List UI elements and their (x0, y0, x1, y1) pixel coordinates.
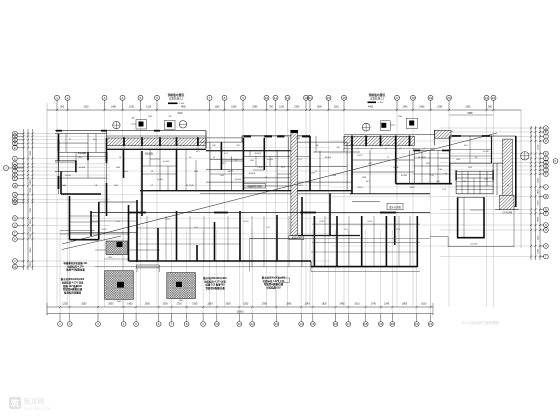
svg-text:14: 14 (308, 96, 312, 100)
left wing extra room lines (59, 156, 107, 158)
svg-text:详见结施-12: 详见结施-12 (169, 97, 184, 101)
svg-text:1480: 1480 (339, 304, 345, 306)
svg-text:1340: 1340 (402, 107, 408, 109)
room block 316-360 upper (313, 151, 360, 153)
svg-text:F: F (14, 157, 16, 161)
svg-text:4: 4 (122, 96, 124, 100)
svg-text:3150: 3150 (83, 107, 89, 109)
svg-text:预制板布置区: 预制板布置区 (168, 93, 185, 97)
svg-text:1180: 1180 (215, 107, 221, 109)
top-right block (450, 136, 492, 163)
svg-text:1570: 1570 (228, 171, 234, 173)
lift shaft hatched strip (291, 133, 298, 236)
svg-text:1580: 1580 (231, 107, 237, 109)
wall x137 (136, 200, 138, 262)
box between pads (136, 265, 159, 268)
svg-text:18: 18 (411, 96, 415, 100)
core north wall stubs (243, 135, 251, 137)
svg-text:KL10: KL10 (297, 185, 303, 187)
svg-text:17: 17 (347, 322, 351, 326)
left wing rooms upper (55, 160, 76, 162)
lower band north boundary (91, 212, 430, 214)
svg-text:3190: 3190 (465, 107, 471, 109)
svg-text:KL5(2): KL5(2) (145, 153, 153, 156)
right wing small rooms cluster (456, 170, 493, 172)
svg-text:2850: 2850 (537, 189, 539, 195)
svg-text:8800: 8800 (30, 247, 32, 253)
svg-text:22: 22 (429, 322, 433, 326)
svg-text:W: W (14, 265, 17, 269)
svg-text:h=110: h=110 (267, 159, 274, 161)
hatch band 1 cross wall marks (123, 137, 125, 146)
svg-text:3: 3 (104, 96, 106, 100)
svg-text:12: 12 (286, 96, 290, 100)
svg-text:12: 12 (251, 322, 255, 326)
svg-text:13: 13 (275, 322, 279, 326)
svg-text:15: 15 (327, 96, 331, 100)
thick south edge centre block (298, 235, 360, 237)
svg-text:T: T (545, 255, 547, 259)
svg-text:15: 15 (311, 322, 315, 326)
horizontal axis grid lines right (330, 128, 544, 257)
right hatched wall strip (503, 139, 513, 207)
svg-text:4490: 4490 (368, 107, 374, 109)
svg-text:KL8(1): KL8(1) (249, 173, 256, 175)
svg-text:板顶标高同基础: 板顶标高同基础 (64, 291, 81, 295)
svg-text:1620: 1620 (421, 304, 427, 306)
svg-text:L3(1): L3(1) (257, 167, 262, 169)
boxed text right wing low (387, 203, 403, 209)
svg-text:2900: 2900 (30, 179, 32, 185)
svg-text:T: T (14, 231, 16, 235)
svg-text:1980: 1980 (252, 107, 258, 109)
svg-text:S: S (545, 244, 547, 248)
svg-text:16: 16 (334, 322, 338, 326)
lower band inner horizontals (137, 227, 240, 229)
svg-text:1500: 1500 (162, 304, 168, 306)
svg-text:1480: 1480 (419, 107, 425, 109)
svg-text:1570: 1570 (410, 187, 416, 189)
outer dimension closure lines (46, 103, 48, 315)
svg-text:31800: 31800 (237, 310, 245, 313)
svg-text:E: E (14, 146, 16, 150)
right protruding axis bubble (553, 159, 558, 164)
top-right block interior (450, 149, 492, 151)
right wing walls (395, 139, 397, 184)
svg-text:KL13: KL13 (244, 221, 250, 223)
svg-text:2620: 2620 (322, 304, 328, 306)
svg-text:1:100: 1:100 (378, 102, 384, 104)
svg-text:17: 17 (395, 96, 399, 100)
svg-text:1:100: 1:100 (179, 103, 185, 105)
svg-text:详见结施-102: 详见结施-102 (266, 286, 281, 290)
svg-text:22: 22 (492, 96, 496, 100)
big thin rectangle lower mid (250, 238, 430, 240)
svg-text:S: S (14, 223, 16, 227)
svg-text:18: 18 (364, 322, 368, 326)
svg-text:KL14: KL14 (357, 187, 363, 189)
svg-text:2600: 2600 (225, 304, 231, 306)
core walls and rooms (159, 150, 161, 191)
svg-text:2600: 2600 (145, 304, 151, 306)
svg-text:h=100: h=100 (157, 179, 164, 181)
left wing wall stubs (58, 140, 60, 151)
svg-text:14: 14 (300, 322, 304, 326)
svg-text:2010: 2010 (354, 304, 360, 306)
svg-text:6: 6 (156, 96, 158, 100)
lower band south walls (129, 260, 312, 262)
svg-text:2880: 2880 (286, 304, 292, 306)
svg-text:8: 8 (224, 96, 226, 100)
svg-text:h=100: h=100 (235, 179, 242, 181)
svg-text:1450: 1450 (127, 304, 133, 306)
lower band thin inner verticals (146, 216, 148, 261)
svg-text:筑龙网: 筑龙网 (24, 397, 45, 406)
svg-text:筑: 筑 (11, 399, 20, 409)
lower band inner lines (312, 223, 420, 225)
short lower diagonal (62, 236, 121, 250)
svg-text:2x1.8m: 2x1.8m (470, 244, 477, 246)
svg-text:KL11(2): KL11(2) (186, 185, 194, 187)
east top walls (451, 135, 516, 137)
svg-text:KL13(2): KL13(2) (418, 157, 426, 159)
svg-text:2850: 2850 (30, 218, 32, 224)
column box B1 (136, 120, 147, 130)
top axis bubbles (55, 95, 60, 100)
column circle C4 right (521, 152, 529, 160)
svg-text:双层双向配筋拉通: 双层双向配筋拉通 (205, 286, 225, 290)
sub dimension row under band 1 (107, 148, 207, 150)
stipple pad S3 (167, 273, 196, 299)
south wall right wing (350, 193, 430, 195)
svg-text:9: 9 (242, 96, 244, 100)
svg-text:2950: 2950 (108, 304, 114, 306)
svg-text:6300: 6300 (30, 207, 32, 213)
vertical axis grid lines (57, 102, 494, 322)
bottom overall dimension line (47, 313, 433, 315)
svg-text:D: D (545, 139, 547, 143)
svg-text:N: N (14, 193, 16, 197)
bottom dimension line (47, 306, 433, 308)
svg-text:P: P (545, 212, 547, 216)
column box B4 (406, 118, 417, 128)
svg-text:R: R (545, 228, 547, 232)
svg-text:16: 16 (342, 96, 346, 100)
boxed label below lift strip (289, 236, 304, 240)
left wing mid walls (106, 138, 108, 163)
svg-text:1740: 1740 (371, 304, 377, 306)
right wing extra rooms 414-450 (421, 150, 423, 184)
svg-text:KL12: KL12 (166, 219, 172, 221)
svg-text:1460: 1460 (111, 107, 117, 109)
left wing inner room lines (59, 177, 107, 179)
svg-text:1250: 1250 (62, 304, 68, 306)
long diagonal leader line (62, 133, 497, 244)
svg-text:4350: 4350 (30, 150, 32, 156)
right hatch bottom patch (500, 195, 514, 209)
svg-text:详见结施-12: 详见结施-12 (370, 97, 385, 101)
svg-text:19: 19 (429, 96, 433, 100)
horizontal axis grid lines left (18, 134, 331, 267)
svg-text:8800: 8800 (537, 216, 539, 222)
svg-text:20: 20 (447, 96, 451, 100)
boxed annotation core (243, 184, 266, 188)
svg-text:3650: 3650 (30, 187, 32, 193)
lower band hanging walls (90, 211, 92, 236)
right vertical dimension lines (530, 126, 532, 260)
svg-text:1: 1 (56, 96, 58, 100)
left wing west wall (58, 134, 60, 161)
svg-text:1450: 1450 (537, 248, 539, 254)
svg-text:2300: 2300 (30, 233, 32, 239)
column circle C1 (113, 121, 120, 128)
svg-text:5: 5 (140, 96, 142, 100)
svg-text:h=110: h=110 (163, 161, 170, 163)
svg-text:E: E (545, 152, 547, 156)
svg-text:预制板布置区: 预制板布置区 (369, 93, 386, 97)
right step boundary (430, 210, 514, 247)
svg-text:20: 20 (391, 322, 395, 326)
svg-text:1100: 1100 (537, 235, 539, 240)
svg-text:4550: 4550 (181, 107, 187, 109)
svg-text:h=110: h=110 (401, 175, 408, 177)
svg-text:10: 10 (265, 96, 269, 100)
svg-text:1340: 1340 (384, 304, 390, 306)
svg-text:R: R (14, 216, 16, 220)
svg-text:11: 11 (238, 322, 241, 326)
svg-text:1600: 1600 (537, 144, 539, 150)
svg-text:7: 7 (209, 96, 211, 100)
svg-text:板厚400配筋拉通: 板厚400配筋拉通 (66, 268, 85, 272)
svg-text:h=110: h=110 (393, 167, 400, 169)
svg-text:2: 2 (67, 96, 69, 100)
svg-text:2780: 2780 (262, 304, 268, 306)
column circle C3 (362, 123, 370, 131)
svg-text:10: 10 (215, 322, 219, 326)
svg-text:1310: 1310 (334, 107, 340, 109)
column circle C2 (179, 121, 186, 128)
thick wall stubs on north edge (56, 130, 62, 132)
core right rooms (309, 136, 311, 191)
svg-text:1580: 1580 (437, 107, 443, 109)
right axis bubbles (544, 126, 549, 131)
svg-text:1230: 1230 (129, 107, 135, 109)
svg-text:3250: 3250 (81, 304, 87, 306)
svg-text:21: 21 (415, 322, 419, 326)
left vertical dimension lines (23, 129, 25, 270)
stipple pad S2 (105, 271, 134, 300)
svg-text:2800: 2800 (402, 304, 408, 306)
svg-text:KL3(2): KL3(2) (78, 151, 86, 155)
svg-text:D: D (14, 141, 16, 145)
bottom axis bubbles (58, 322, 63, 327)
svg-text:h=110: h=110 (65, 175, 72, 177)
svg-text:1130: 1130 (146, 107, 152, 109)
svg-text:K: K (545, 172, 547, 176)
svg-text:3200: 3200 (30, 226, 32, 232)
sub dimension row under band 2 (344, 148, 434, 150)
core extra internal lines (249, 151, 251, 157)
svg-text:1560: 1560 (317, 107, 323, 109)
svg-text:2250: 2250 (30, 261, 32, 267)
stipple pad S1 (106, 241, 128, 255)
watermark logo bottom left (9, 397, 50, 412)
north hatch step upper right (435, 130, 452, 138)
svg-text:KL9(2): KL9(2) (325, 157, 332, 159)
svg-text:1010: 1010 (279, 107, 285, 109)
svg-text:h=110: h=110 (483, 151, 490, 153)
left protruding axis bubble (4, 166, 9, 171)
left axis bubbles (13, 131, 18, 136)
right lower stair block (457, 197, 459, 238)
svg-text:ZHULONG.COM: ZHULONG.COM (24, 407, 51, 411)
north hatched wall band 1 (107, 138, 207, 146)
svg-text:21: 21 (485, 96, 489, 100)
svg-text:KL12: KL12 (357, 155, 363, 157)
svg-text:KL16: KL16 (102, 229, 108, 231)
svg-text:19: 19 (379, 322, 383, 326)
svg-text:1750: 1750 (176, 304, 182, 306)
svg-text:1560: 1560 (294, 107, 300, 109)
svg-text:U: U (14, 237, 16, 241)
svg-text:1340: 1340 (304, 304, 310, 306)
hatch band 2 cross wall marks (351, 136, 353, 147)
svg-text:KL14: KL14 (320, 221, 326, 223)
north hatched wall band 2 (344, 136, 415, 145)
svg-text:V: V (14, 259, 16, 263)
column box B3 (381, 121, 391, 131)
top dimension line (47, 109, 521, 111)
east wall (515, 136, 517, 207)
centre north walls (206, 137, 243, 139)
svg-text:1500: 1500 (243, 304, 249, 306)
lower offset boundary line (95, 267, 420, 272)
wall pair east of block (493, 162, 503, 164)
svg-text:11: 11 (274, 96, 277, 100)
svg-text:B: B (545, 130, 547, 134)
svg-text:C: C (545, 135, 547, 139)
column box B2 (164, 120, 175, 129)
svg-text:26.170标高梁平面布置图: 26.170标高梁平面布置图 (461, 320, 499, 325)
svg-text:5985: 5985 (467, 113, 473, 115)
svg-text:3200: 3200 (537, 200, 539, 206)
svg-text:h=100: h=100 (79, 167, 86, 169)
stair shaft left (61, 193, 101, 195)
svg-text:KL15: KL15 (368, 221, 374, 223)
svg-text:8100: 8100 (177, 113, 183, 115)
svg-text:电梯机房详图: 电梯机房详图 (247, 184, 262, 188)
svg-text:1580: 1580 (207, 304, 213, 306)
svg-text:6300: 6300 (537, 177, 539, 183)
svg-text:KL6(1): KL6(1) (255, 153, 262, 155)
north edge lines left wing (55, 130, 206, 132)
svg-text:1900: 1900 (192, 304, 198, 306)
